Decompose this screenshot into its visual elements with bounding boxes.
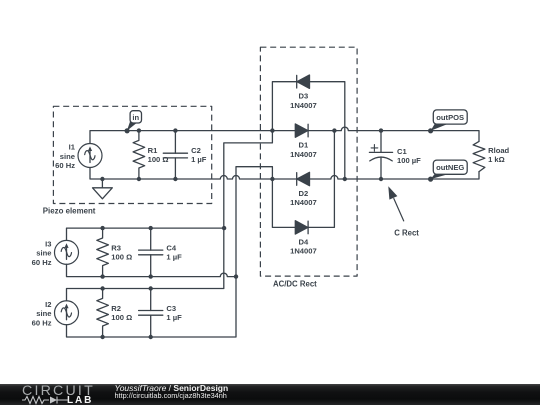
svg-text:D1: D1 bbox=[299, 141, 309, 150]
svg-text:100 Ω: 100 Ω bbox=[111, 313, 132, 322]
junction D2 anode rail bbox=[343, 177, 347, 181]
wire bottom rail y=179 with hops at 223.8, 236, 334.4 bbox=[90, 168, 479, 180]
svg-text:Piezo element: Piezo element bbox=[43, 206, 96, 215]
svg-text:R3: R3 bbox=[111, 243, 121, 252]
Piezo element enclosure box bbox=[53, 106, 211, 203]
node outNEG anchor bbox=[428, 177, 433, 182]
svg-text:sine: sine bbox=[36, 249, 51, 258]
wire C3 stubs bbox=[150, 289, 152, 338]
current source I2 bbox=[55, 301, 79, 325]
junction R3 top bbox=[100, 226, 104, 230]
svg-text:1 µF: 1 µF bbox=[191, 155, 207, 164]
svg-text:sine: sine bbox=[60, 152, 75, 161]
current source I3 bbox=[55, 240, 79, 264]
wire C2 stubs bbox=[174, 131, 176, 179]
svg-text:1N4007: 1N4007 bbox=[290, 101, 317, 110]
junction I3 bottom rail bbox=[234, 274, 238, 278]
diode D1 1N4007 (pointing right) bbox=[295, 124, 308, 137]
junction C4 bottom bbox=[149, 274, 153, 278]
diode D2 1N4007 (pointing left) bbox=[297, 172, 310, 185]
junction C3 bottom bbox=[149, 335, 153, 339]
wire C1 top stub bbox=[380, 131, 382, 153]
node A (D1 anode / D3 cathode) bbox=[270, 128, 274, 132]
resistor R3 bbox=[97, 228, 109, 277]
resistor R1 bbox=[133, 131, 145, 179]
svg-text:I3: I3 bbox=[45, 239, 51, 248]
svg-text:outPOS: outPOS bbox=[436, 113, 464, 122]
junction ground bbox=[100, 177, 104, 181]
svg-text:1N4007: 1N4007 bbox=[290, 150, 317, 159]
wire C4 stubs bbox=[150, 228, 152, 277]
svg-text:D2: D2 bbox=[299, 189, 309, 198]
svg-text:60 Hz: 60 Hz bbox=[32, 258, 52, 267]
svg-text:AC/DC Rect: AC/DC Rect bbox=[273, 279, 317, 288]
wire I3 top rail bbox=[67, 228, 225, 240]
svg-text:60 Hz: 60 Hz bbox=[55, 161, 75, 170]
junction C1 top bbox=[379, 128, 383, 132]
diode D4 1N4007 (pointing right) bbox=[295, 221, 308, 234]
AC/DC Rect enclosure box bbox=[260, 47, 357, 276]
junction C1 bottom bbox=[379, 177, 383, 181]
resistor R2 bbox=[97, 289, 109, 338]
wire N1 link: node A down-left to I3 top rail and I2 top bbox=[67, 131, 273, 301]
svg-text:100 µF: 100 µF bbox=[397, 156, 421, 165]
capacitor C3 bbox=[139, 311, 163, 316]
svg-text:1 µF: 1 µF bbox=[166, 253, 182, 262]
svg-text:R2: R2 bbox=[111, 304, 121, 313]
svg-text:100 Ω: 100 Ω bbox=[111, 253, 132, 262]
junction R3 bottom bbox=[100, 274, 104, 278]
junction D1 cathode rail bbox=[332, 128, 336, 132]
junction C2 top bbox=[173, 128, 177, 132]
junction C2 bottom bbox=[173, 177, 177, 181]
svg-text:sine: sine bbox=[36, 309, 51, 318]
capacitor C1 (polarized) bbox=[369, 152, 392, 161]
svg-text:Rload: Rload bbox=[488, 146, 509, 155]
svg-text:C4: C4 bbox=[166, 243, 176, 252]
svg-text:1N4007: 1N4007 bbox=[290, 198, 317, 207]
footer bar bbox=[0, 384, 540, 405]
diode D3 1N4007 (pointing left) bbox=[297, 75, 310, 88]
svg-text:D4: D4 bbox=[299, 237, 309, 246]
capacitor C4 bbox=[139, 250, 163, 255]
resistor Rload bbox=[473, 141, 485, 171]
svg-text:I2: I2 bbox=[45, 300, 51, 309]
junction R2 bottom bbox=[100, 335, 104, 339]
C Rect annotation arrow bbox=[394, 199, 404, 221]
junction C3 top bbox=[149, 286, 153, 290]
junction I3 top rail bbox=[222, 226, 226, 230]
node B (D2 cathode / D4 anode) bbox=[270, 177, 274, 181]
svg-text:60 Hz: 60 Hz bbox=[32, 318, 52, 327]
wire D4 loop: node B down, across D4 row, up to D1 cathode rail bbox=[272, 131, 334, 228]
junction R2 top bbox=[100, 286, 104, 290]
svg-text:D3: D3 bbox=[299, 92, 309, 101]
svg-text:C Rect: C Rect bbox=[394, 228, 419, 237]
svg-text:1N4007: 1N4007 bbox=[290, 247, 317, 256]
node in anchor bbox=[125, 128, 130, 133]
wire N2 branch: node B up-left, down to I3 bottom and I2 bottom bbox=[67, 167, 273, 337]
node outPOS anchor bbox=[428, 128, 433, 133]
wire D3 loop: up from node A, across D3 row, down to node B bbox=[272, 82, 344, 179]
current source I1 bbox=[78, 144, 102, 168]
svg-text:outNEG: outNEG bbox=[436, 163, 464, 172]
ground stub bbox=[101, 179, 103, 188]
svg-text:1 µF: 1 µF bbox=[166, 313, 182, 322]
svg-text:C3: C3 bbox=[166, 304, 176, 313]
svg-text:C1: C1 bbox=[397, 147, 407, 156]
logo resistor squiggle and diode bbox=[22, 397, 68, 404]
svg-text:R1: R1 bbox=[148, 146, 158, 155]
wire C1 bottom stub bbox=[380, 157, 382, 179]
junction C4 top bbox=[149, 226, 153, 230]
svg-text:100 Ω: 100 Ω bbox=[148, 155, 169, 164]
capacitor C2 bbox=[163, 153, 187, 158]
svg-text:1 kΩ: 1 kΩ bbox=[488, 155, 505, 164]
flag outNEG bbox=[431, 160, 468, 179]
svg-text:I1: I1 bbox=[69, 143, 76, 152]
svg-text:in: in bbox=[132, 113, 139, 122]
wire top rail y=130.6 with hop over D3 anode vertical bbox=[90, 127, 479, 143]
ground bbox=[93, 188, 113, 199]
CircuitLab logo bbox=[22, 383, 95, 399]
wire I3 bottom rail with hop at 223.8 bbox=[67, 264, 237, 276]
svg-text:C2: C2 bbox=[191, 146, 201, 155]
flag outPOS bbox=[431, 110, 468, 131]
junction R1 top bbox=[137, 128, 141, 132]
flag in bbox=[127, 111, 142, 131]
junction R1 bottom bbox=[137, 177, 141, 181]
